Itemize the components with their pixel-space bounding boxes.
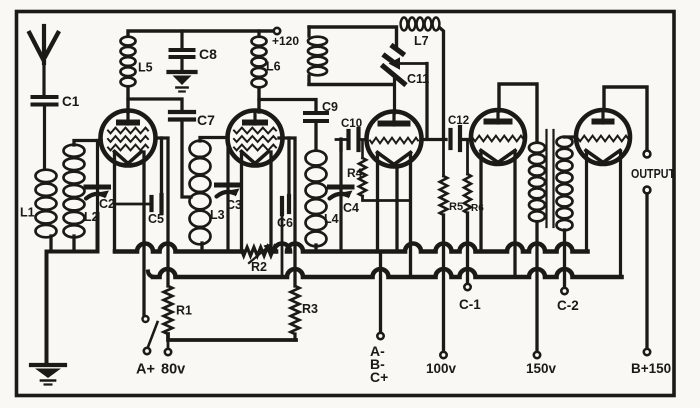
wire — [535, 222, 538, 351]
terminal +120 — [272, 28, 299, 48]
resistor R2 — [242, 244, 276, 275]
svg-text:+120: +120 — [272, 34, 299, 48]
capacitor C1 — [33, 94, 80, 109]
capacitor C9 — [305, 100, 338, 121]
coil L4 — [306, 151, 339, 247]
coil L2 — [64, 145, 99, 238]
wire — [128, 31, 273, 36]
wire — [309, 83, 393, 86]
wire — [279, 138, 295, 286]
terminal A+ — [136, 362, 155, 378]
coil L3 — [190, 141, 225, 245]
resistor R6 — [464, 140, 484, 215]
wire — [49, 236, 52, 252]
capacitor C10 — [336, 118, 367, 150]
wire — [440, 28, 444, 139]
svg-text:C8: C8 — [199, 46, 217, 62]
wire — [182, 120, 191, 197]
coil L6 — [252, 37, 281, 88]
capacitor C4 — [330, 139, 360, 252]
capacitor C11 — [384, 47, 430, 87]
wire — [339, 140, 342, 151]
ground — [31, 365, 65, 385]
svg-text:C4: C4 — [343, 201, 359, 215]
wire — [126, 87, 129, 112]
svg-text:L4: L4 — [324, 212, 339, 226]
svg-text:C-1: C-1 — [459, 297, 481, 312]
wire — [168, 334, 296, 349]
svg-text:C7: C7 — [197, 112, 215, 128]
transformer T1 primary — [529, 143, 545, 222]
transformer T1 core — [547, 130, 554, 227]
wire — [142, 152, 145, 316]
terminal A-B-C+ — [370, 333, 388, 385]
svg-text:L3: L3 — [210, 208, 225, 222]
svg-text:L1: L1 — [20, 206, 35, 220]
svg-text:B+150: B+150 — [631, 361, 671, 376]
svg-text:C10: C10 — [341, 118, 362, 130]
svg-text:L6: L6 — [266, 60, 281, 74]
capacitor C2 — [86, 141, 115, 252]
capacitor C5 — [115, 195, 164, 226]
wire — [257, 88, 260, 112]
resistor R4 — [347, 141, 366, 196]
resistor R1 — [164, 286, 193, 334]
wire — [395, 166, 398, 252]
svg-text:R3: R3 — [302, 302, 318, 316]
svg-text:C6: C6 — [277, 216, 293, 230]
terminal OUTPUT upper — [631, 151, 675, 181]
svg-text:R1: R1 — [176, 304, 192, 318]
wire — [240, 152, 243, 252]
wire — [513, 151, 516, 277]
resistor R5 — [440, 139, 463, 215]
wire — [393, 76, 396, 113]
wire — [604, 87, 647, 150]
wire — [363, 196, 379, 201]
capacitor C6 — [277, 196, 293, 277]
wire — [314, 121, 317, 150]
svg-text:C-2: C-2 — [557, 298, 579, 313]
svg-text:100v: 100v — [426, 361, 457, 376]
wire — [128, 99, 182, 110]
svg-text:C2: C2 — [99, 197, 115, 211]
svg-text:150v: 150v — [526, 361, 557, 376]
svg-text:OUTPUT: OUTPUT — [631, 167, 675, 181]
svg-text:C12: C12 — [448, 115, 469, 127]
transformer T1 secondary — [557, 137, 573, 231]
wire — [113, 152, 116, 252]
wire — [200, 138, 228, 252]
svg-text:R2: R2 — [251, 260, 267, 274]
ground — [169, 72, 196, 92]
svg-text:R5: R5 — [449, 201, 463, 213]
wire bus A+ — [148, 269, 622, 277]
svg-text:C9: C9 — [322, 100, 338, 114]
wire — [425, 64, 428, 140]
wire — [563, 230, 566, 287]
wire — [269, 152, 272, 252]
svg-text:C5: C5 — [148, 212, 164, 226]
wire — [47, 214, 98, 365]
wire — [314, 245, 317, 252]
capacitor C12 — [448, 115, 470, 150]
wire — [585, 151, 588, 252]
wire — [43, 105, 46, 170]
wire bus A- — [115, 244, 588, 252]
tube V3 — [367, 112, 422, 167]
wire — [442, 215, 445, 351]
wire — [309, 27, 397, 47]
svg-text:A+: A+ — [136, 362, 155, 378]
wire — [259, 100, 316, 112]
svg-text:R4: R4 — [347, 166, 363, 180]
coil tickler — [308, 27, 327, 84]
terminal C-2 — [557, 288, 579, 313]
tube V1 — [101, 111, 156, 166]
coil L5 — [121, 37, 153, 87]
wire — [645, 194, 648, 348]
wire — [156, 138, 168, 286]
switch S1 — [143, 316, 158, 354]
wire — [466, 213, 469, 283]
wire — [479, 151, 482, 252]
wire — [565, 135, 577, 138]
wire — [293, 334, 296, 340]
resistor R3 — [291, 286, 319, 334]
capacitor C3 — [217, 138, 243, 252]
tube V2 — [228, 111, 283, 166]
wire — [257, 31, 260, 36]
terminal 150v — [526, 352, 557, 376]
coil L7 — [401, 18, 440, 49]
svg-text:L5: L5 — [138, 61, 153, 75]
terminal C-1 — [459, 284, 481, 312]
capacitor C8 — [171, 31, 218, 72]
tube V4 — [471, 110, 525, 164]
wire — [421, 138, 446, 141]
antenna — [30, 26, 59, 96]
tube V5 — [576, 110, 630, 164]
terminal 100v — [426, 352, 457, 376]
wire — [379, 252, 382, 333]
capacitor C7 — [170, 112, 215, 128]
coil L1 — [20, 170, 57, 238]
wire — [499, 84, 537, 142]
terminal OUTPUT lower — [644, 187, 651, 194]
wire — [409, 153, 412, 277]
wire — [378, 153, 411, 252]
svg-text:C+: C+ — [370, 369, 388, 385]
wire — [619, 151, 622, 277]
svg-text:C3: C3 — [226, 198, 242, 212]
svg-text:80v: 80v — [161, 362, 185, 378]
svg-text:C1: C1 — [62, 94, 80, 109]
wire — [74, 141, 101, 252]
terminal B+150 — [631, 349, 671, 376]
terminal 80v — [161, 349, 185, 378]
svg-text:L7: L7 — [414, 34, 429, 48]
